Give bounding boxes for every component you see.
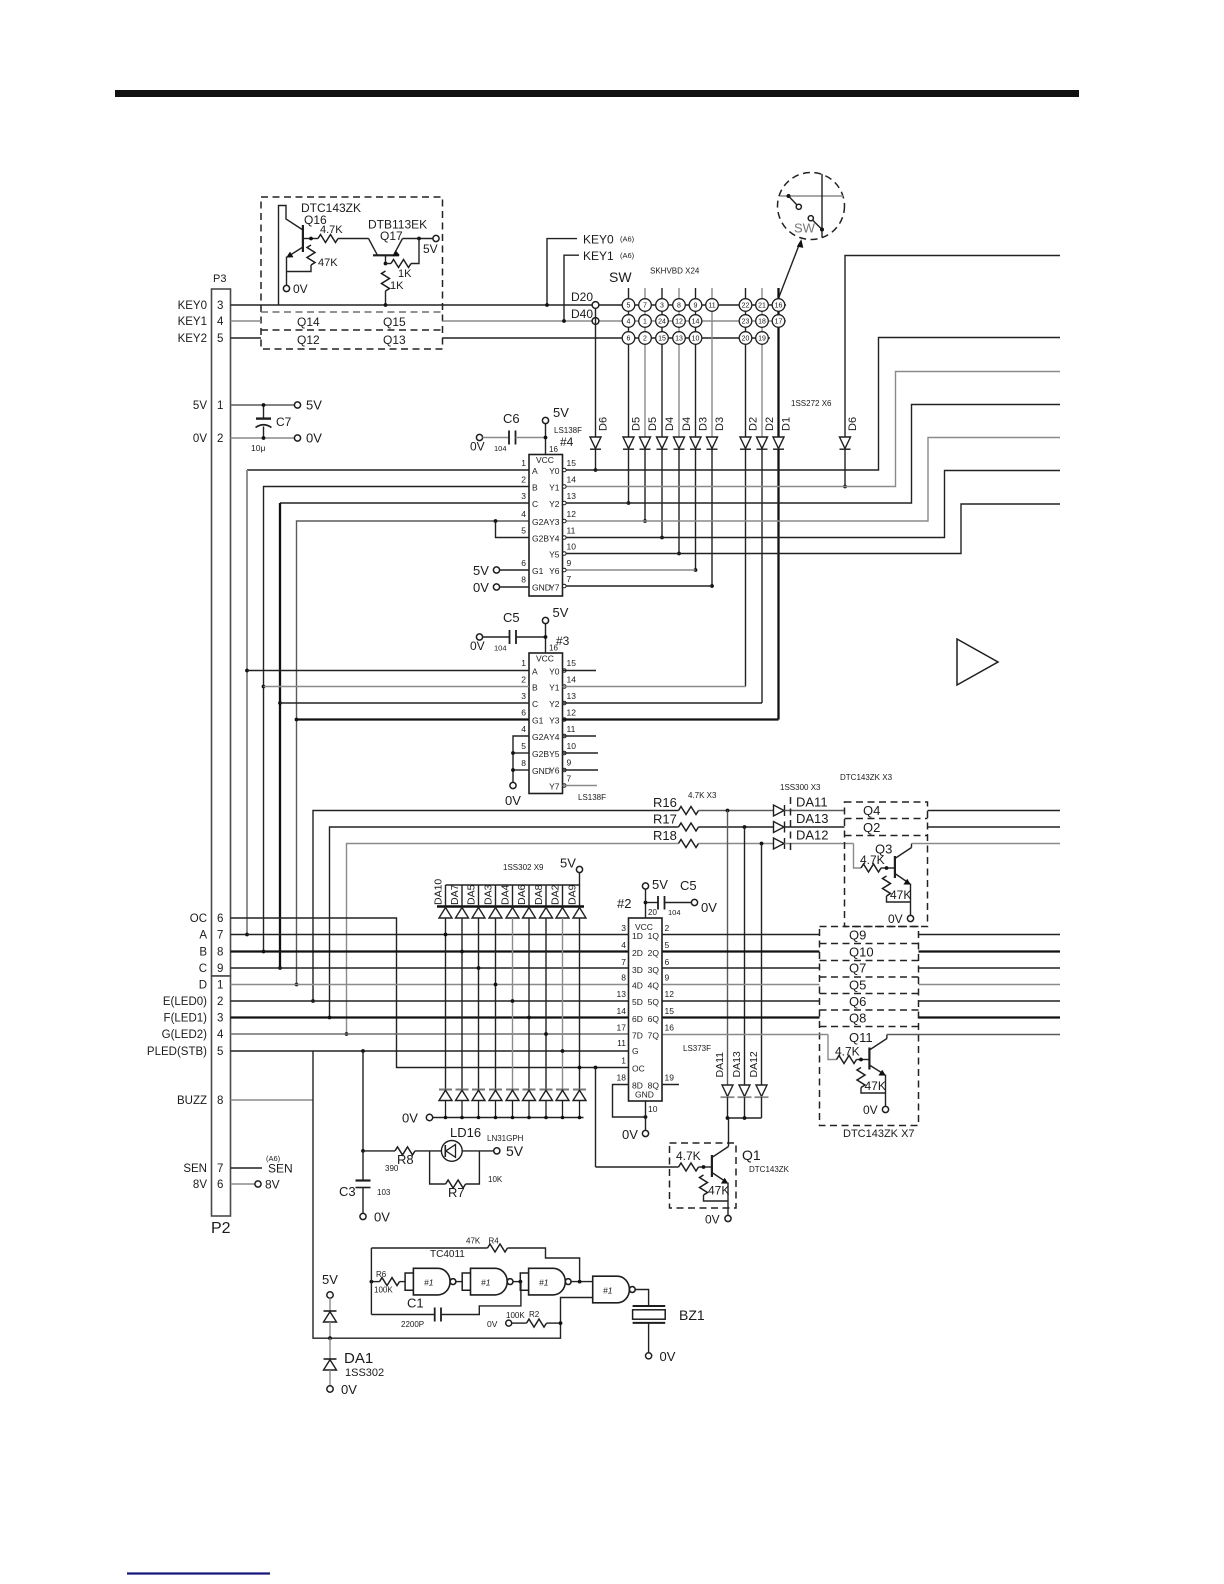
wire DA 0V rail — [433, 1117, 584, 1119]
key switches row 2 — [622, 315, 785, 328]
svg-text:5V: 5V — [560, 856, 576, 871]
svg-text:5V: 5V — [473, 563, 489, 578]
resistor 1K horizontal (Q17) — [385, 255, 387, 263]
wire Y2#3 to D2 column — [563, 702, 763, 704]
wire OC row — [231, 918, 629, 1068]
svg-text:10: 10 — [567, 542, 577, 552]
wire Y4#3 stub — [563, 735, 597, 737]
svg-text:C5: C5 — [680, 878, 697, 893]
wire G2A/G2B/GND tie #3 — [513, 736, 529, 783]
svg-text:#3: #3 — [556, 634, 570, 648]
svg-text:18: 18 — [758, 319, 766, 326]
node DA7-B — [460, 950, 464, 954]
wire Y4 staircase — [563, 471, 1061, 538]
svg-text:D: D — [199, 980, 207, 992]
wire Y2 staircase — [563, 405, 1061, 504]
svg-text:G: G — [632, 1046, 639, 1056]
svg-text:0V: 0V — [341, 1382, 357, 1397]
module box Q9..Q8/Q11 (dashed) — [820, 927, 919, 1126]
svg-text:SW: SW — [609, 269, 632, 285]
svg-text:4.7K: 4.7K — [676, 1149, 701, 1163]
wire gate3-gate4 — [572, 1281, 593, 1283]
wire gate1-gate2 — [456, 1281, 462, 1283]
wire D row — [231, 984, 629, 986]
svg-text:D6: D6 — [847, 417, 859, 431]
svg-text:14: 14 — [567, 475, 577, 485]
svg-text:3: 3 — [621, 923, 626, 933]
svg-text:3: 3 — [217, 300, 223, 312]
wire bus D vertical — [297, 521, 530, 985]
svg-text:24: 24 — [658, 319, 666, 326]
resistor 47K (Q3) — [883, 876, 891, 896]
svg-text:16: 16 — [665, 1023, 675, 1033]
svg-text:3Q: 3Q — [648, 965, 660, 975]
resistor R8 — [363, 1150, 395, 1152]
svg-text:9: 9 — [694, 303, 698, 310]
svg-text:DA12: DA12 — [748, 1051, 760, 1077]
svg-text:5V: 5V — [553, 405, 569, 420]
svg-text:13: 13 — [675, 336, 683, 343]
svg-text:G1: G1 — [532, 716, 544, 726]
wire OC to Q1 — [595, 1068, 597, 1168]
wire bus G vertical — [347, 844, 679, 1035]
diode D6 (right column) — [840, 437, 851, 449]
svg-text:15: 15 — [567, 658, 577, 668]
svg-text:DA10: DA10 — [433, 879, 445, 905]
svg-text:Q10: Q10 — [849, 945, 874, 960]
wire feedback node vertical — [370, 1248, 372, 1315]
wire GND#2 — [645, 1101, 647, 1131]
wire B row — [231, 950, 629, 952]
terminal 0V #2 — [642, 1130, 648, 1136]
svg-text:D4: D4 — [681, 417, 693, 431]
svg-text:D20: D20 — [571, 290, 593, 304]
wire Y6 stub — [563, 569, 696, 571]
wire Q11 collector out — [887, 1034, 1060, 1036]
svg-text:DA13: DA13 — [731, 1051, 743, 1077]
svg-text:A: A — [532, 667, 538, 677]
dashed module edge 1SS300 — [790, 797, 792, 850]
svg-text:4: 4 — [217, 1029, 224, 1041]
node DA10-A — [444, 933, 448, 937]
svg-text:C3: C3 — [339, 1184, 356, 1199]
svg-text:7: 7 — [567, 574, 572, 584]
svg-text:11: 11 — [708, 303, 715, 310]
svg-text:Q13: Q13 — [383, 333, 406, 347]
IC#4 pin numbers — [521, 458, 526, 585]
diode DA4 — [512, 885, 514, 907]
key switches row 3 — [622, 332, 768, 345]
svg-text:2: 2 — [521, 475, 526, 485]
svg-text:A: A — [199, 930, 207, 942]
wire BUZZ drop — [313, 1051, 593, 1338]
diode DA3 — [495, 885, 497, 907]
svg-text:4Q: 4Q — [648, 981, 660, 991]
wire G1#3 — [297, 718, 530, 720]
wire G row — [231, 1033, 629, 1035]
svg-text:DA6: DA6 — [516, 884, 528, 905]
wire LD16 to 5V — [462, 1150, 493, 1152]
svg-text:4: 4 — [521, 509, 526, 519]
gate U1c (NAND #1) — [529, 1268, 572, 1295]
svg-text:0V: 0V — [306, 431, 322, 446]
node DA1 junction — [328, 1336, 332, 1340]
svg-text:5V: 5V — [193, 400, 207, 412]
svg-text:DTC143ZK X3: DTC143ZK X3 — [840, 773, 893, 782]
svg-text:1SS272 X6: 1SS272 X6 — [791, 399, 832, 408]
svg-text:3: 3 — [217, 1013, 223, 1025]
svg-text:Q12: Q12 — [297, 333, 320, 347]
svg-text:R16: R16 — [653, 795, 677, 810]
svg-text:3D: 3D — [632, 965, 643, 975]
svg-text:D6: D6 — [598, 417, 610, 431]
node DA5-C — [477, 966, 481, 970]
svg-text:5D: 5D — [632, 997, 643, 1007]
svg-text:1: 1 — [521, 458, 526, 468]
matrix column wires — [628, 288, 630, 437]
svg-text:TC4011: TC4011 — [430, 1249, 465, 1260]
svg-text:1Q: 1Q — [648, 931, 660, 941]
terminal D20 — [592, 302, 599, 309]
svg-text:6Q: 6Q — [648, 1014, 660, 1024]
svg-text:SEN: SEN — [268, 1162, 293, 1176]
svg-text:Q8: Q8 — [849, 1011, 866, 1026]
svg-text:15: 15 — [658, 336, 666, 343]
svg-text:17: 17 — [775, 319, 783, 326]
wire KEY2 — [443, 337, 771, 339]
node C-row — [278, 966, 282, 970]
terminal D40 — [592, 318, 599, 325]
svg-text:7Q: 7Q — [648, 1031, 660, 1041]
svg-text:47K: 47K — [865, 1079, 886, 1093]
svg-text:0V: 0V — [505, 793, 521, 808]
svg-text:5V: 5V — [306, 398, 322, 413]
svg-text:9: 9 — [665, 973, 670, 983]
connector P3 — [212, 289, 231, 976]
svg-text:5: 5 — [665, 940, 670, 950]
svg-text:4: 4 — [217, 316, 224, 328]
wire bus B vertical — [264, 487, 530, 952]
wire Y5#3 stub — [563, 752, 599, 754]
svg-text:0V: 0V — [701, 900, 717, 915]
wire KEY1 (A6) stub — [564, 255, 579, 321]
svg-text:2: 2 — [643, 336, 647, 343]
svg-text:6: 6 — [217, 913, 223, 925]
terminal 0V GND#4 — [493, 584, 499, 590]
wire VCC#2 — [645, 889, 647, 918]
svg-text:LS138F: LS138F — [578, 793, 606, 802]
terminal 0V DA rail — [426, 1114, 432, 1120]
node C-#3 — [278, 701, 282, 705]
svg-text:12: 12 — [567, 708, 577, 718]
svg-text:0V: 0V — [293, 282, 308, 296]
svg-text:0V: 0V — [470, 639, 485, 653]
svg-text:P2: P2 — [211, 1220, 231, 1237]
svg-text:10: 10 — [567, 741, 577, 751]
svg-text:B: B — [199, 947, 207, 959]
terminal 5V #3 — [542, 617, 548, 623]
svg-text:2: 2 — [521, 675, 526, 685]
svg-text:OC: OC — [632, 1064, 645, 1074]
buzzer BZ1 — [633, 1305, 666, 1307]
svg-text:6: 6 — [521, 558, 526, 568]
svg-text:10: 10 — [692, 336, 700, 343]
svg-text:5: 5 — [521, 526, 526, 536]
svg-text:LS138F: LS138F — [554, 426, 582, 435]
diode DA8 — [545, 885, 547, 907]
svg-text:14: 14 — [692, 319, 700, 326]
wire DA common cathode — [727, 1097, 729, 1118]
svg-text:#1: #1 — [539, 1278, 549, 1288]
diode DA6 — [528, 885, 530, 907]
svg-text:0V: 0V — [193, 433, 207, 445]
svg-text:11: 11 — [617, 1038, 626, 1048]
P3 pin labels — [147, 300, 207, 1191]
svg-text:D40: D40 — [571, 307, 593, 321]
module box Q4/Q2/Q3 (dashed) — [845, 802, 928, 927]
diode D2 — [740, 437, 751, 449]
svg-text:8: 8 — [521, 758, 526, 768]
svg-text:7: 7 — [217, 930, 223, 942]
wire bus A vertical — [247, 469, 529, 471]
svg-text:5V: 5V — [423, 242, 438, 256]
svg-text:4.7K: 4.7K — [320, 224, 343, 236]
svg-text:19: 19 — [665, 1073, 675, 1083]
svg-text:OC: OC — [190, 913, 207, 925]
wire Y5 staircase — [563, 504, 1061, 554]
wire bus E vertical — [313, 811, 679, 1002]
svg-text:20: 20 — [648, 908, 657, 917]
svg-text:5: 5 — [521, 741, 526, 751]
diode DA2 — [562, 885, 564, 907]
IC#3 pin labels — [532, 654, 554, 777]
svg-text:GND: GND — [635, 1090, 654, 1100]
svg-text:7: 7 — [643, 303, 647, 310]
wire 8Q stub — [662, 1084, 679, 1086]
transistor Q1 — [596, 1166, 679, 1168]
svg-text:Q7: Q7 — [849, 961, 866, 976]
svg-text:0V: 0V — [470, 440, 485, 454]
IC#4 output bubbles — [563, 468, 567, 588]
svg-text:10K: 10K — [488, 1175, 503, 1184]
resistor 1K vertical (Q17) — [382, 271, 390, 291]
svg-text:BZ1: BZ1 — [679, 1307, 705, 1323]
svg-text:Q15: Q15 — [383, 315, 406, 329]
svg-text:Q14: Q14 — [297, 315, 320, 329]
svg-text:G(LED2): G(LED2) — [162, 1029, 208, 1041]
terminal 5V — [294, 402, 300, 408]
svg-text:Y0: Y0 — [549, 667, 560, 677]
svg-text:#4: #4 — [560, 435, 574, 449]
svg-text:4: 4 — [521, 724, 526, 734]
terminal 5V G1 — [493, 567, 499, 573]
svg-text:G1: G1 — [532, 566, 544, 576]
svg-text:104: 104 — [494, 644, 507, 653]
svg-text:3: 3 — [521, 691, 526, 701]
svg-text:D2: D2 — [748, 417, 760, 431]
svg-text:14: 14 — [567, 675, 577, 685]
svg-text:390: 390 — [385, 1164, 399, 1173]
wire Y0 staircase — [563, 338, 1061, 471]
terminal 5V #2 — [642, 883, 648, 889]
svg-text:5V: 5V — [506, 1143, 524, 1159]
svg-text:A: A — [532, 466, 538, 476]
svg-text:R7: R7 — [448, 1185, 465, 1200]
svg-text:#1: #1 — [481, 1278, 491, 1288]
IC#2 pin numbers — [617, 923, 627, 1083]
svg-text:8: 8 — [217, 1095, 223, 1107]
svg-text:G2A: G2A — [532, 732, 549, 742]
terminal 8V — [255, 1181, 261, 1187]
diode D5 — [623, 437, 634, 449]
svg-text:5V: 5V — [652, 877, 668, 892]
resistor 47K (Q1) — [700, 1175, 708, 1195]
svg-text:(A6): (A6) — [620, 235, 635, 244]
diode DA5 — [478, 885, 480, 907]
svg-text:DTC143ZK X7: DTC143ZK X7 — [843, 1128, 915, 1140]
wire arrow to SW detail — [779, 243, 800, 298]
diode D3 — [690, 437, 701, 449]
svg-text:104: 104 — [668, 908, 681, 917]
diode DA13 lower — [739, 1085, 750, 1097]
wire B#3 — [264, 686, 530, 688]
svg-text:0V: 0V — [402, 1111, 418, 1126]
svg-text:19: 19 — [758, 336, 766, 343]
diode D5 — [640, 437, 651, 449]
wire C row — [231, 967, 629, 969]
svg-text:7D: 7D — [632, 1031, 643, 1041]
svg-text:1: 1 — [621, 1056, 626, 1066]
diode D3 — [707, 437, 718, 449]
svg-text:KEY0: KEY0 — [583, 233, 614, 247]
svg-text:KEY1: KEY1 — [583, 249, 614, 263]
svg-text:(A6): (A6) — [266, 1154, 281, 1163]
svg-text:9: 9 — [217, 963, 223, 975]
svg-text:0V: 0V — [487, 1319, 498, 1329]
svg-text:P3: P3 — [213, 273, 226, 285]
svg-text:104: 104 — [494, 444, 507, 453]
switch detail circle SW — [778, 173, 845, 240]
svg-text:DTC143ZK: DTC143ZK — [749, 1165, 790, 1174]
svg-text:DA12: DA12 — [796, 828, 829, 843]
svg-text:12: 12 — [665, 989, 675, 999]
svg-text:Y4: Y4 — [549, 534, 560, 544]
node DA3-D — [494, 983, 498, 987]
svg-text:5: 5 — [217, 1046, 223, 1058]
svg-text:3: 3 — [660, 303, 664, 310]
svg-text:VCC: VCC — [536, 455, 554, 465]
wire F row — [231, 1016, 629, 1018]
svg-text:103: 103 — [377, 1188, 391, 1197]
svg-text:Y1: Y1 — [549, 683, 560, 693]
wire PLED drop — [362, 1051, 364, 1151]
gate U1b (NAND #1) — [471, 1268, 514, 1295]
svg-text:15: 15 — [567, 458, 577, 468]
svg-text:1: 1 — [217, 400, 223, 412]
diode D4 — [657, 437, 668, 449]
svg-text:C: C — [532, 499, 538, 509]
svg-text:R17: R17 — [653, 812, 677, 827]
svg-text:7: 7 — [217, 1163, 223, 1175]
svg-text:Y1: Y1 — [549, 483, 560, 493]
svg-text:Y5: Y5 — [549, 550, 560, 560]
svg-text:G2B: G2B — [532, 749, 549, 759]
svg-text:20: 20 — [742, 336, 750, 343]
svg-text:1SS302: 1SS302 — [345, 1367, 384, 1379]
wire E row — [231, 1000, 629, 1002]
svg-text:SKHVBD X24: SKHVBD X24 — [650, 267, 700, 276]
svg-text:16: 16 — [549, 644, 558, 653]
svg-text:16: 16 — [775, 303, 783, 310]
wire BZ1 to 0V — [648, 1323, 650, 1353]
svg-text:14: 14 — [617, 1006, 627, 1016]
svg-text:0V: 0V — [705, 1213, 720, 1227]
wire Y7 stub — [563, 585, 713, 587]
svg-text:4: 4 — [621, 940, 626, 950]
svg-text:C: C — [199, 963, 207, 975]
svg-text:KEY0: KEY0 — [178, 300, 207, 312]
top rule bar — [115, 90, 1079, 97]
P3/P2 pin numbers — [217, 300, 224, 1191]
svg-text:1D: 1D — [632, 931, 643, 941]
diode DA12 lower — [756, 1085, 767, 1097]
node PLED-C3 — [361, 1049, 365, 1053]
resistor 47K (Q11) — [857, 1068, 865, 1088]
node A-row — [245, 933, 249, 937]
diode DA7 — [461, 885, 463, 907]
wire G2A/G2B tie — [494, 519, 498, 523]
resistor 4.7K (Q16) — [318, 235, 338, 243]
svg-text:15: 15 — [665, 1006, 675, 1016]
svg-text:8: 8 — [621, 973, 626, 983]
svg-text:DA11: DA11 — [796, 795, 828, 810]
svg-text:DA11: DA11 — [714, 1052, 726, 1078]
wire DA12 drop — [761, 844, 763, 1086]
node E-row — [311, 999, 315, 1003]
node D-#3 — [295, 718, 299, 722]
svg-text:LN31GPH: LN31GPH — [487, 1134, 524, 1143]
svg-text:DA4: DA4 — [500, 884, 512, 905]
svg-text:1K: 1K — [390, 280, 404, 292]
svg-text:4D: 4D — [632, 981, 643, 991]
svg-text:B: B — [532, 683, 538, 693]
svg-text:10: 10 — [648, 1104, 658, 1114]
svg-text:LS373F: LS373F — [683, 1044, 711, 1053]
svg-text:2: 2 — [665, 923, 670, 933]
svg-text:SEN: SEN — [183, 1163, 207, 1175]
svg-text:C5: C5 — [503, 610, 520, 625]
diode DA11 lower — [722, 1085, 733, 1097]
svg-text:DA3: DA3 — [483, 884, 495, 905]
node R8/C3 — [361, 1149, 365, 1153]
node A-#3 — [245, 669, 249, 673]
svg-text:100K: 100K — [374, 1286, 393, 1295]
svg-text:8: 8 — [677, 303, 681, 310]
svg-text:2Q: 2Q — [648, 948, 660, 958]
node DA8-G — [544, 1032, 548, 1036]
svg-text:B: B — [532, 483, 538, 493]
svg-text:#1: #1 — [603, 1286, 613, 1296]
svg-text:Q2: Q2 — [863, 820, 880, 835]
diode DA11 — [774, 805, 785, 816]
terminal 5V DA rail — [576, 866, 582, 872]
connector P2 — [212, 976, 231, 1216]
terminal 0V DA1 — [327, 1386, 333, 1392]
svg-text:Q9: Q9 — [849, 928, 866, 943]
svg-text:R2: R2 — [529, 1310, 540, 1319]
svg-text:4.7K X3: 4.7K X3 — [688, 791, 717, 800]
node D-row — [295, 983, 299, 987]
